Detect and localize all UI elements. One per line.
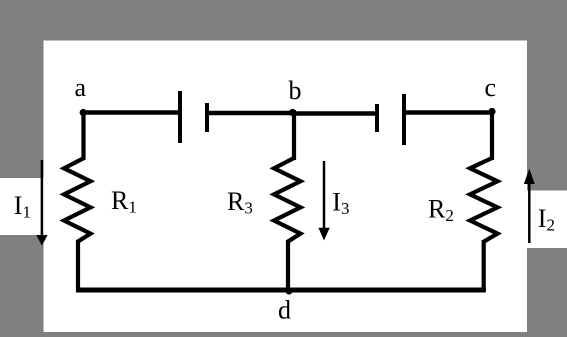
wire: node a to battery V1	[81, 110, 180, 115]
node d	[285, 287, 292, 294]
wire: node b to battery V2	[292, 111, 377, 116]
wire: battery V2 to node c	[406, 110, 494, 115]
wire: node c down to R2	[490, 110, 494, 160]
svg-text:a: a	[75, 73, 87, 102]
wire: battery V1 to node b	[207, 111, 294, 116]
left white notch for I1 label	[0, 178, 44, 235]
current arrow I3 (downward)	[318, 161, 329, 241]
wire: node b down to R3	[292, 110, 296, 160]
current arrow I1 (downward)	[36, 160, 47, 246]
node b	[289, 109, 296, 116]
resistor R3	[274, 158, 301, 242]
white drawing panel	[44, 41, 528, 333]
battery V1 (between a and b)	[180, 91, 207, 143]
wire: R2 down to bottom wire	[482, 240, 486, 291]
svg-text:b: b	[289, 76, 302, 105]
node c	[488, 108, 495, 115]
wire: node a down to R1	[81, 110, 85, 160]
bottom wire d rail	[76, 288, 486, 293]
right white notch for I2 label	[527, 191, 567, 249]
wire: R1 down to bottom wire	[76, 240, 80, 291]
wire: R3 down to node d	[286, 240, 290, 291]
resistor R1	[64, 158, 91, 242]
battery V2 (between b and c)	[377, 94, 404, 145]
node a	[80, 109, 87, 116]
svg-text:c: c	[485, 73, 497, 102]
svg-text:d: d	[278, 296, 291, 325]
current arrow I2 (upward)	[524, 169, 535, 243]
resistor R2	[470, 158, 498, 242]
